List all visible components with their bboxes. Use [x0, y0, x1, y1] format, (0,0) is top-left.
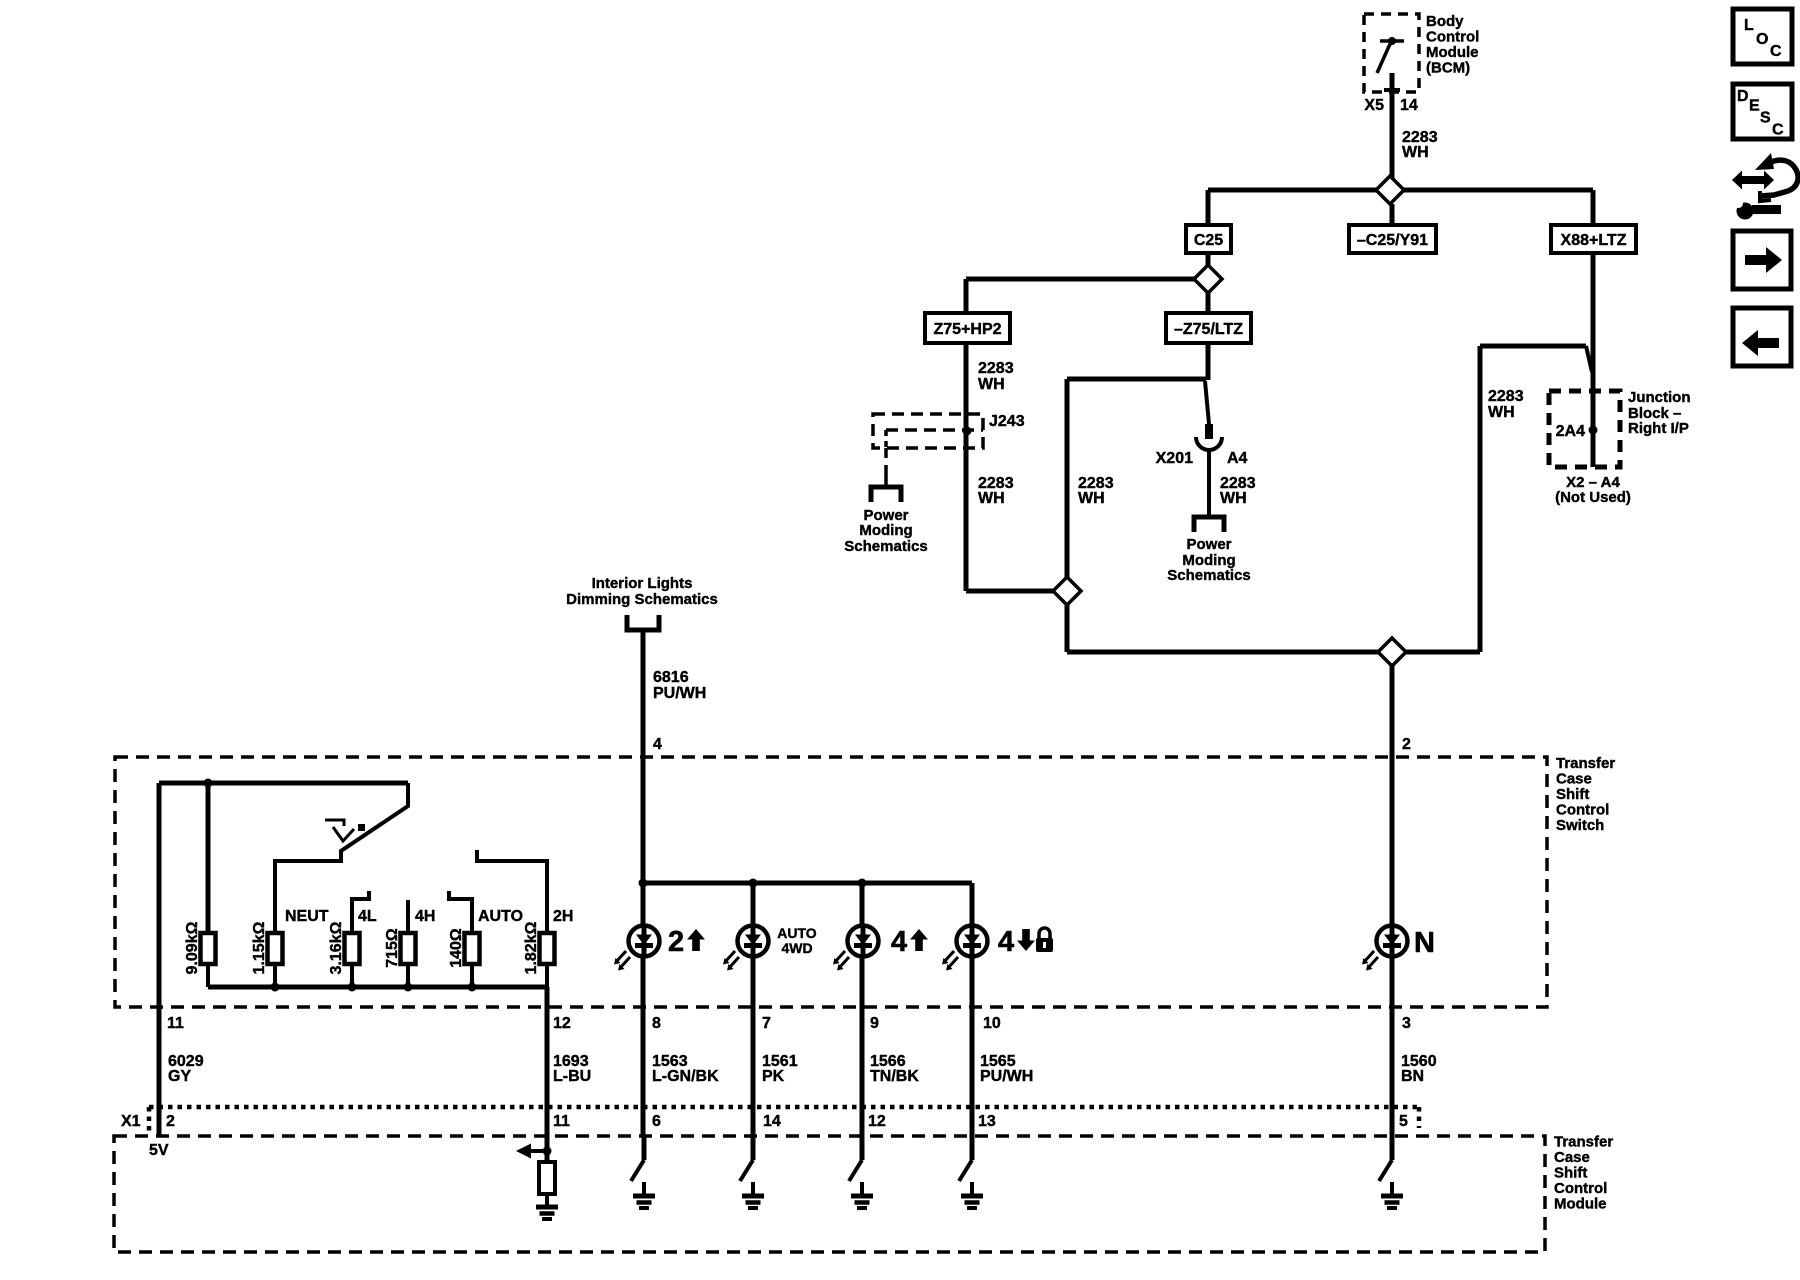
LED indicator 4-HI [848, 926, 879, 957]
svg-text:Power: Power [1186, 536, 1231, 553]
resistor 140ohm [465, 933, 480, 964]
svg-text:12: 12 [868, 1113, 886, 1130]
svg-text:2: 2 [166, 1113, 175, 1130]
svg-text:6816: 6816 [653, 669, 689, 686]
wire from left diamond down and right [1065, 605, 1070, 652]
svg-text:10: 10 [983, 1015, 1001, 1032]
node dots on LED bus [639, 879, 648, 888]
BCM pin tick at connector X5-14 [1384, 88, 1400, 92]
connector X201 female arc [1196, 437, 1222, 450]
LED indicator AUTO 4WD [738, 926, 769, 957]
wire: resistor bottom bus [206, 963, 210, 987]
svg-text:(Not Used): (Not Used) [1555, 489, 1631, 506]
switch wiper arrow marks [325, 820, 344, 826]
wire -Z75/LTZ down [1206, 343, 1211, 380]
svg-text:WH: WH [1402, 144, 1429, 161]
contact hook 4L [352, 891, 369, 933]
ground at pin 14 [751, 1182, 755, 1196]
contact hook 2H [477, 850, 547, 933]
wire Z75+HP2 down to corner [964, 343, 969, 591]
node: junction diamond left [1053, 577, 1081, 605]
ground at pin 13 [970, 1182, 974, 1196]
module driver switch at pin 14 [751, 1136, 756, 1160]
wire from diamond to Z75+HP2 branch [966, 277, 1194, 282]
svg-text:Body: Body [1426, 13, 1464, 30]
svg-text:Shift: Shift [1556, 786, 1589, 803]
svg-text:9: 9 [870, 1015, 879, 1032]
splice J243 dashed symbol [873, 414, 983, 448]
wire vertical x1067 [1065, 379, 1070, 577]
module driver switch at pin 6 [642, 1136, 647, 1160]
svg-text:PU/WH: PU/WH [653, 685, 706, 702]
node dots on bottom bus [271, 983, 280, 992]
svg-text:X5: X5 [1364, 97, 1384, 114]
svg-text:X88+LTZ: X88+LTZ [1561, 232, 1627, 249]
svg-text:Transfer: Transfer [1554, 1134, 1613, 1151]
svg-text:5: 5 [1399, 1113, 1408, 1130]
wire diagonal into X201 pin [1205, 381, 1209, 424]
svg-text:L: L [1744, 17, 1754, 34]
wire LED3 drop [860, 883, 865, 1136]
svg-text:N: N [1414, 927, 1435, 959]
junction block dashed box [1549, 391, 1620, 467]
svg-text:AUTO: AUTO [478, 908, 523, 925]
svg-text:Dimming Schematics: Dimming Schematics [566, 591, 718, 608]
wire into junction block [1591, 253, 1596, 467]
svg-text:Module: Module [1554, 1196, 1607, 1213]
svg-text:TN/BK: TN/BK [870, 1068, 919, 1085]
svg-text:S: S [1760, 110, 1771, 127]
svg-text:2: 2 [1402, 736, 1411, 753]
svg-text:Control: Control [1556, 802, 1609, 819]
svg-text:–C25/Y91: –C25/Y91 [1357, 232, 1428, 249]
node dot at pin 11 sense [543, 1147, 552, 1156]
wire drop to -C25/Y91 [1390, 204, 1395, 225]
wire: left leg to pin 11 [157, 783, 162, 1136]
connector X201 male pin [1205, 424, 1213, 439]
resistor 1.82kohm [540, 933, 555, 964]
wire 6816 PU/WH down to LED bus [641, 630, 646, 883]
svg-text:Schematics: Schematics [1167, 567, 1250, 584]
icon: DESC button [1733, 84, 1792, 139]
module box: Transfer Case Shift Control Module (dashed) [114, 1136, 1545, 1252]
svg-text:Control: Control [1426, 29, 1479, 46]
svg-text:11: 11 [553, 1113, 570, 1130]
svg-text:PU/WH: PU/WH [980, 1068, 1033, 1085]
svg-text:14: 14 [1400, 97, 1418, 114]
wire below module resistor [545, 1194, 549, 1207]
svg-text:2H: 2H [553, 908, 573, 925]
node: junction diamond right [1378, 638, 1406, 666]
switch wiper (rotary) [275, 783, 408, 933]
svg-text:1.15kΩ: 1.15kΩ [251, 921, 268, 974]
connector C25 [1186, 225, 1231, 253]
svg-text:Control: Control [1554, 1180, 1607, 1197]
svg-text:13: 13 [978, 1113, 996, 1130]
svg-text:2283: 2283 [978, 360, 1014, 377]
icon: schematic navigation (arrows and wrench) [1732, 171, 1774, 190]
svg-text:PK: PK [762, 1068, 785, 1085]
wire below X201 [1207, 449, 1211, 517]
dashed stub from J243 to off-page bracket [884, 448, 888, 474]
svg-text:BN: BN [1401, 1068, 1424, 1085]
module sense arrow at pin 11 [530, 1149, 547, 1153]
svg-text:WH: WH [978, 490, 1005, 507]
node: splice dot on wire at J243 [963, 427, 972, 436]
LED indicator N [1377, 926, 1408, 957]
resistor 3.16kohm [345, 933, 360, 964]
resistor 1.15kohm [268, 933, 283, 964]
svg-text:8: 8 [652, 1015, 661, 1032]
wire drop to X88+LTZ [1591, 190, 1596, 225]
svg-text:O: O [1756, 31, 1768, 48]
LED indicator 4-LO [957, 926, 988, 957]
svg-text:12: 12 [553, 1015, 571, 1032]
svg-text:4: 4 [653, 736, 662, 753]
wire pin 11 into module [545, 1136, 550, 1162]
contact stub 4H [406, 900, 410, 933]
connector -C25/Y91 [1349, 225, 1436, 253]
svg-text:Schematics: Schematics [844, 538, 927, 555]
connector X88+LTZ [1551, 225, 1636, 253]
resistor (module pull) [539, 1162, 555, 1194]
svg-text:4WD: 4WD [781, 940, 812, 956]
BCM internal driver switch [1380, 39, 1404, 43]
svg-text:C: C [1770, 43, 1782, 60]
svg-text:D: D [1737, 88, 1749, 105]
wire drop to C25 [1206, 190, 1211, 225]
svg-text:7: 7 [762, 1015, 771, 1032]
LED indicator 2-HI [629, 926, 660, 957]
wire diagonal join at X88 branch [1586, 346, 1592, 372]
svg-text:4: 4 [891, 926, 907, 958]
off-page bracket (Power Moding, X201) [1194, 517, 1224, 532]
svg-text:L-BU: L-BU [553, 1068, 591, 1085]
svg-text:NEUT: NEUT [285, 908, 329, 925]
svg-text:Z75+HP2: Z75+HP2 [933, 321, 1001, 338]
wire: 9.09k branch [206, 783, 211, 933]
off-page bracket (Power Moding, left) [871, 487, 901, 502]
node: junction diamond at BCM wire [1376, 176, 1404, 204]
module driver switch at pin 12 [860, 1136, 865, 1160]
svg-text:140Ω: 140Ω [448, 928, 465, 968]
svg-text:Transfer: Transfer [1556, 755, 1615, 772]
svg-text:2A4: 2A4 [1556, 423, 1585, 440]
svg-text:14: 14 [763, 1113, 781, 1130]
svg-text:2283: 2283 [1488, 388, 1524, 405]
wire horizontal to X88 branch [1480, 344, 1586, 349]
ground at pin 12 [860, 1182, 864, 1196]
svg-text:3: 3 [1402, 1015, 1411, 1032]
ground (module resistor) [545, 1200, 549, 1207]
connector Z75+HP2 [925, 313, 1010, 343]
svg-text:X201: X201 [1156, 450, 1193, 467]
svg-text:J243: J243 [989, 413, 1025, 430]
svg-text:–Z75/LTZ: –Z75/LTZ [1174, 321, 1243, 338]
svg-text:X1: X1 [121, 1113, 141, 1130]
svg-text:GY: GY [168, 1068, 191, 1085]
svg-text:5V: 5V [149, 1142, 169, 1159]
svg-text:L-GN/BK: L-GN/BK [652, 1068, 719, 1085]
svg-text:WH: WH [978, 376, 1005, 393]
svg-text:C: C [1772, 122, 1784, 139]
wire below C25 [1206, 253, 1211, 266]
node: dot on top rail [204, 779, 213, 788]
svg-text:2: 2 [668, 926, 684, 958]
connector -Z75/LTZ [1166, 313, 1251, 343]
svg-text:Case: Case [1556, 771, 1592, 788]
svg-text:4: 4 [998, 926, 1014, 958]
ground at pin 5 [1390, 1182, 1394, 1196]
wire into left diamond from Z75 branch [966, 589, 1053, 594]
resistor 9.09kohm [201, 933, 216, 964]
wire: N branch from right diamond [1390, 666, 1395, 1136]
svg-text:C25: C25 [1194, 232, 1223, 249]
svg-text:4L: 4L [358, 908, 377, 925]
svg-text:4H: 4H [415, 908, 435, 925]
module box: Transfer Case Shift Control Switch (dashed) [115, 757, 1547, 1007]
svg-text:WH: WH [1220, 490, 1247, 507]
module box: Body Control Module (BCM) dashed outline [1364, 14, 1419, 92]
svg-text:WH: WH [1488, 404, 1515, 421]
svg-text:Shift: Shift [1554, 1165, 1587, 1182]
svg-text:6: 6 [652, 1113, 661, 1130]
ground at pin 6 [642, 1182, 646, 1196]
svg-text:Switch: Switch [1556, 817, 1604, 834]
wire: 2H leg down to pin 12 [545, 987, 550, 1136]
svg-text:3.16kΩ: 3.16kΩ [328, 921, 345, 974]
contact hook AUTO [449, 891, 472, 933]
wire: LED supply bus [643, 881, 972, 886]
wire LED1 drop [641, 883, 646, 1136]
wire from diamond down to -Z75/LTZ [1206, 293, 1211, 313]
icon: previous page (left arrow) [1733, 308, 1791, 366]
svg-text:11: 11 [167, 1015, 184, 1032]
svg-text:E: E [1749, 98, 1760, 115]
wire right diamond to x1480 riser [1406, 650, 1480, 655]
off-page bracket (Interior Lights) [627, 615, 659, 630]
module driver switch at pin 5 [1390, 1136, 1395, 1160]
wire from BCM X5-14 down to node [1390, 73, 1395, 178]
module driver switch at pin 13 [970, 1136, 975, 1160]
svg-text:A4: A4 [1227, 450, 1248, 467]
wire LED4 drop [970, 883, 975, 1136]
svg-text:Interior Lights: Interior Lights [592, 575, 693, 592]
svg-text:Module: Module [1426, 44, 1479, 61]
svg-text:AUTO: AUTO [777, 925, 817, 941]
svg-text:Junction: Junction [1628, 389, 1691, 406]
node: junction diamond below C25 [1194, 265, 1222, 293]
svg-text:715Ω: 715Ω [384, 928, 401, 968]
svg-text:Right I/P: Right I/P [1628, 420, 1689, 437]
svg-text:1.82kΩ: 1.82kΩ [523, 921, 540, 974]
resistor 715ohm [401, 933, 416, 964]
icon: LOC button [1733, 9, 1792, 64]
svg-text:Moding: Moding [859, 522, 912, 539]
node: terminal dot 2A4 [1589, 426, 1598, 435]
icon: next page (right arrow) [1733, 231, 1791, 289]
svg-text:WH: WH [1078, 490, 1105, 507]
wire LED2 drop [751, 883, 756, 1136]
svg-text:Case: Case [1554, 1149, 1590, 1166]
wire: horizontal from x1067 to X201 drop [1067, 377, 1206, 382]
wire: horizontal distribution 2283 WH [1208, 188, 1593, 193]
wire: 5V feed top rail [159, 781, 408, 786]
svg-text:(BCM): (BCM) [1426, 60, 1470, 77]
connector X1 dotted line [149, 1105, 1419, 1110]
svg-text:9.09kΩ: 9.09kΩ [184, 921, 201, 974]
